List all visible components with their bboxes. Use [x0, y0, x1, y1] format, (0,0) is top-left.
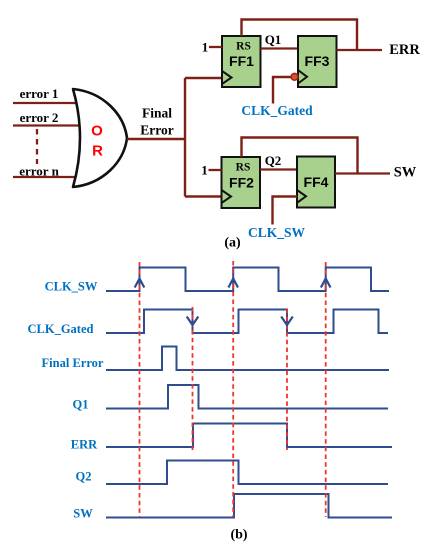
waveform Final Error — [106, 347, 389, 371]
waveform CLK_SW — [106, 268, 389, 292]
wire SW feedback to FF2 reset — [242, 138, 358, 174]
svg-text:Q2: Q2 — [265, 153, 282, 168]
svg-text:SW: SW — [73, 507, 93, 521]
falling edge arrow 1 — [187, 317, 199, 326]
svg-text:ERR: ERR — [389, 42, 420, 58]
falling edge arrow 2 — [281, 317, 293, 326]
OR gate U1 — [73, 89, 127, 187]
svg-text:FF3: FF3 — [305, 53, 330, 69]
svg-text:error n: error n — [19, 164, 59, 179]
rising edge arrow 1 — [135, 279, 145, 288]
waveform Q2 — [106, 461, 388, 485]
svg-text:RS: RS — [236, 162, 251, 174]
waveform Q1 — [106, 385, 388, 409]
svg-text:error 2: error 2 — [20, 110, 59, 125]
svg-text:CLK_Gated: CLK_Gated — [241, 103, 313, 118]
flip-flop FF2 — [222, 157, 261, 208]
svg-text:Final: Final — [142, 106, 172, 121]
wire FF2 S input stub — [209, 169, 222, 171]
svg-text:(b): (b) — [230, 528, 247, 543]
clock bubble FF3 — [291, 73, 298, 80]
wire Final Error net — [127, 78, 222, 197]
svg-text:Q2: Q2 — [76, 470, 92, 484]
svg-text:R: R — [92, 143, 103, 160]
svg-text:1: 1 — [201, 163, 208, 178]
svg-text:SW: SW — [394, 165, 417, 181]
wire CLK_SW — [273, 197, 298, 225]
svg-text:Error: Error — [140, 123, 174, 138]
waveform SW — [106, 494, 392, 518]
svg-text:CLK_Gated: CLK_Gated — [28, 322, 94, 336]
red dashed timeline t5 — [325, 262, 327, 517]
svg-text:(a): (a) — [224, 236, 241, 251]
waveform CLK_Gated — [106, 310, 388, 334]
svg-text:FF4: FF4 — [304, 174, 329, 190]
svg-text:O: O — [91, 123, 103, 140]
svg-text:error 1: error 1 — [20, 86, 59, 101]
label Final Error — [140, 106, 174, 138]
svg-text:Final Error: Final Error — [42, 356, 104, 370]
svg-text:ERR: ERR — [71, 438, 98, 452]
svg-text:Q1: Q1 — [265, 32, 282, 47]
red dashed timeline t2 — [192, 307, 194, 452]
rising edge arrow 2 — [228, 279, 238, 288]
svg-text:FF1: FF1 — [229, 53, 254, 69]
wire Q1 net — [261, 47, 299, 49]
red dashed timeline t1 — [139, 262, 141, 517]
wire ERR feedback to FF1 reset — [242, 20, 358, 51]
svg-text:Q1: Q1 — [73, 398, 89, 412]
wire error 2 input — [13, 124, 80, 126]
wire error n input — [13, 176, 80, 178]
wire error 1 input — [13, 102, 80, 104]
flip-flop FF1 — [222, 36, 261, 87]
flip-flop FF3 — [298, 36, 337, 87]
wire FF1 S input stub — [209, 46, 222, 48]
svg-text:CLK_SW: CLK_SW — [45, 280, 98, 294]
wire SW output — [335, 172, 390, 174]
wire ERR output — [337, 49, 383, 51]
svg-text:1: 1 — [202, 40, 209, 55]
rising edge arrow 3 — [321, 279, 331, 288]
svg-text:RS: RS — [236, 41, 251, 53]
wire CLK_Gated — [273, 77, 291, 104]
dashed continuation line — [36, 129, 38, 164]
svg-text:CLK_SW: CLK_SW — [248, 225, 306, 240]
waveform ERR — [106, 424, 392, 448]
flip-flop FF4 — [297, 157, 335, 208]
wire Q2 net — [260, 168, 297, 170]
svg-text:FF2: FF2 — [229, 175, 254, 191]
red dashed timeline t4 — [286, 309, 288, 450]
red dashed timeline t3 — [232, 261, 234, 517]
